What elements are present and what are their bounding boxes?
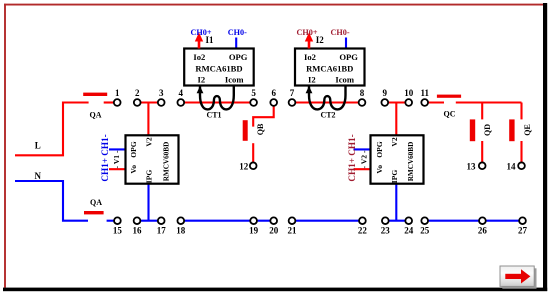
svg-text:RMCV60BD: RMCV60BD xyxy=(407,142,415,182)
svg-text:Icom: Icom xyxy=(335,75,354,85)
svg-text:26: 26 xyxy=(478,226,488,236)
svg-text:14: 14 xyxy=(507,161,517,171)
svg-text:Io2: Io2 xyxy=(304,52,316,62)
svg-text:OPG: OPG xyxy=(375,141,384,158)
svg-text:10: 10 xyxy=(404,88,414,98)
svg-text:27: 27 xyxy=(518,226,528,236)
svg-text:QA: QA xyxy=(90,198,102,207)
svg-text:RMCV60BD: RMCV60BD xyxy=(163,142,171,182)
svg-text:RMCA61BD: RMCA61BD xyxy=(195,64,242,74)
svg-text:17: 17 xyxy=(157,226,167,236)
svg-text:CH0+: CH0+ xyxy=(296,28,317,37)
svg-text:QC: QC xyxy=(444,110,456,119)
svg-text:6: 6 xyxy=(271,88,276,98)
svg-text:11: 11 xyxy=(420,88,429,98)
svg-text:CH0+: CH0+ xyxy=(190,28,211,37)
svg-text:3: 3 xyxy=(159,88,164,98)
svg-text:25: 25 xyxy=(420,226,430,236)
svg-text:4: 4 xyxy=(179,88,184,98)
svg-text:V2: V2 xyxy=(145,137,154,146)
svg-text:22: 22 xyxy=(358,226,368,236)
svg-text:20: 20 xyxy=(269,226,279,236)
svg-text:Io2: Io2 xyxy=(193,52,205,62)
svg-text:8: 8 xyxy=(360,88,365,98)
svg-text:5: 5 xyxy=(251,88,256,98)
svg-text:23: 23 xyxy=(381,226,391,236)
svg-text:16: 16 xyxy=(133,226,143,236)
svg-text:CH1+ CH1-: CH1+ CH1- xyxy=(347,134,357,181)
svg-text:15: 15 xyxy=(113,226,123,236)
svg-text:Vo: Vo xyxy=(375,165,384,174)
svg-text:IPG: IPG xyxy=(390,170,399,184)
svg-text:CH0-: CH0- xyxy=(330,28,349,37)
svg-text:- V2 -: - V2 - xyxy=(360,150,369,168)
svg-text:OPG: OPG xyxy=(229,52,248,62)
svg-text:1: 1 xyxy=(115,88,120,98)
svg-text:OPG: OPG xyxy=(339,52,358,62)
svg-text:I2: I2 xyxy=(198,75,206,85)
svg-text:QD: QD xyxy=(483,124,492,136)
svg-text:Icom: Icom xyxy=(225,75,244,85)
svg-text:CH0-: CH0- xyxy=(228,28,247,37)
svg-text:13: 13 xyxy=(467,161,477,171)
svg-text:CH1+ CH1-: CH1+ CH1- xyxy=(100,134,110,181)
svg-text:QE: QE xyxy=(523,124,532,136)
svg-text:19: 19 xyxy=(249,226,259,236)
svg-text:12: 12 xyxy=(239,161,249,171)
svg-text:L: L xyxy=(35,141,41,151)
svg-text:2: 2 xyxy=(135,88,140,98)
svg-text:QB: QB xyxy=(256,123,265,135)
svg-text:IPG: IPG xyxy=(145,170,154,184)
svg-text:CT2: CT2 xyxy=(320,110,335,119)
svg-text:N: N xyxy=(35,171,42,181)
svg-text:I2: I2 xyxy=(308,75,316,85)
svg-text:OPG: OPG xyxy=(129,141,138,158)
svg-text:V2: V2 xyxy=(390,137,399,146)
svg-text:CT1: CT1 xyxy=(206,110,221,119)
svg-text:- V1 -: - V1 - xyxy=(112,150,121,168)
svg-text:21: 21 xyxy=(288,226,298,236)
svg-text:9: 9 xyxy=(383,88,388,98)
svg-text:Vo: Vo xyxy=(129,165,138,174)
svg-text:RMCA61BD: RMCA61BD xyxy=(306,64,353,74)
svg-text:7: 7 xyxy=(290,88,295,98)
svg-text:QA: QA xyxy=(90,111,102,120)
svg-text:18: 18 xyxy=(176,226,186,236)
svg-text:24: 24 xyxy=(404,226,414,236)
